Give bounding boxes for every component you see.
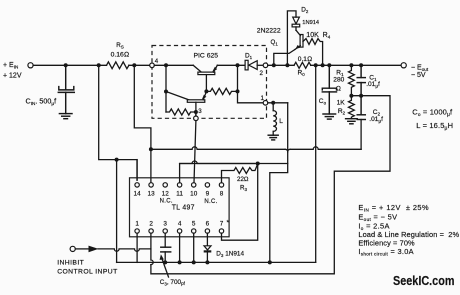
capacitor C1 <box>360 65 362 77</box>
wire -5V riser down to lower bus <box>315 65 317 262</box>
node -5V sense riser <box>314 63 318 67</box>
svg-text:L = 16.5μH: L = 16.5μH <box>416 121 453 131</box>
svg-text:SeekIC.com: SeekIC.com <box>393 273 455 288</box>
wire pin13 riser top handled; wire pin 11 riser to bus <box>180 164 256 183</box>
wire T1 emitter to J2 <box>217 64 245 66</box>
svg-text:8: 8 <box>220 190 224 197</box>
node pin5 on bus <box>192 260 196 264</box>
wire divider feedback to corner <box>151 96 390 274</box>
node inhibit pullup tap <box>115 158 119 162</box>
svg-text:1: 1 <box>135 220 139 227</box>
svg-text:22Ω: 22Ω <box>237 176 249 183</box>
node Co tap <box>327 63 331 67</box>
diode D3 1N914 (pin 6) <box>206 233 208 246</box>
wire lower bus <box>117 261 316 263</box>
svg-text:14: 14 <box>134 190 142 197</box>
svg-text:10: 10 <box>190 190 198 197</box>
output terminal <box>401 63 406 68</box>
resistor R3 22 ohm (pin 8) <box>222 164 258 183</box>
wire J5 to pin 1 <box>238 91 264 102</box>
svg-text:2: 2 <box>260 70 264 77</box>
resistor R1 280 ohm <box>349 65 355 95</box>
inhibit input terminal <box>70 246 75 251</box>
ground below L <box>268 135 278 140</box>
wire pin 4,5 columns <box>179 233 181 262</box>
resistor R0 0.1 ohm <box>294 62 311 68</box>
svg-text:Ω: Ω <box>336 86 341 93</box>
wire pin 1 column <box>136 233 138 262</box>
node divider R1-R2 <box>349 94 353 98</box>
transistor T2 (lower PNP of darlington) <box>166 91 206 116</box>
capacitor Cin <box>65 65 67 89</box>
node C3 bottom on bus <box>163 260 167 264</box>
node J4 (T1 base / T2 emitter) <box>204 89 208 93</box>
ground below Cin <box>59 114 72 119</box>
wire J1 down to J3 <box>165 65 167 112</box>
wire pin 14 riser / pin 13 riser drawn above <box>136 160 138 181</box>
wire HA line (C2 bottom, across to pin13 node) with hops <box>151 147 361 150</box>
svg-text:− 5V: − 5V <box>411 72 426 79</box>
node R1 top <box>349 63 353 67</box>
bottom pins <box>135 220 223 227</box>
node D2 anode / rail junction <box>285 63 289 67</box>
input terminal +Ein <box>28 63 33 68</box>
svg-text:1K: 1K <box>337 99 346 106</box>
ground below Co <box>323 114 336 119</box>
wire pin 2 column with hop over bus <box>151 233 153 264</box>
svg-text:4: 4 <box>155 58 159 65</box>
svg-text:EIN = + 12V ± 25%: EIN = + 12V ± 25% <box>358 203 429 213</box>
PIC625 dashed module box <box>152 46 267 119</box>
svg-text:.01μf: .01μf <box>366 81 380 88</box>
node divider C1-C2 <box>359 94 363 98</box>
capacitor C2 <box>360 96 362 115</box>
svg-text:0.16Ω: 0.16Ω <box>111 51 129 58</box>
node Rs right <box>132 63 136 67</box>
svg-text:7: 7 <box>220 220 224 227</box>
wire output rail right <box>311 64 401 66</box>
svg-text:D3 1N914: D3 1N914 <box>216 250 244 258</box>
svg-text:4: 4 <box>178 220 182 227</box>
node J6 (pin3 node) <box>194 110 198 114</box>
svg-text:2: 2 <box>149 220 153 227</box>
inhibit arrow <box>89 246 99 253</box>
notes text block <box>358 203 459 256</box>
node J1 <box>164 63 168 67</box>
wire pin4 rail into box <box>154 64 193 66</box>
svg-text:INHIBIT: INHIBIT <box>57 259 84 266</box>
wire pin 2 output rail <box>268 64 294 66</box>
svg-text:.01μf: .01μf <box>369 116 383 123</box>
wire pin 7 path <box>222 164 258 241</box>
svg-text:0.1Ω: 0.1Ω <box>298 56 312 63</box>
resistor R2 1K <box>349 96 355 119</box>
svg-text:1N914: 1N914 <box>302 20 319 26</box>
wire PIC pin1 node to L and down <box>268 102 288 104</box>
resistor R4 10K (Q1 base) <box>303 39 323 66</box>
svg-text:280: 280 <box>333 77 344 84</box>
pin 4 <box>150 63 155 68</box>
svg-text:N.C.: N.C. <box>204 199 217 205</box>
node 22ohm/pin7 junction <box>256 162 260 166</box>
svg-text:3: 3 <box>198 108 202 115</box>
svg-text:CONTROL INPUT: CONTROL INPUT <box>57 268 117 275</box>
svg-text:L: L <box>279 118 283 125</box>
node HA left / pin13 <box>149 147 153 151</box>
wire bus to corner riser <box>258 163 288 165</box>
node C1 top <box>359 63 363 67</box>
pin 2 <box>263 63 268 68</box>
top pins <box>135 183 224 187</box>
node R4 / rail junction <box>321 63 325 67</box>
node D3 cathode on bus <box>205 260 209 264</box>
svg-text:13: 13 <box>148 190 156 197</box>
diode D2 1N914 <box>287 11 299 65</box>
node J2 <box>236 63 240 67</box>
wire PIC pin3 to TL pin 10 <box>194 121 196 183</box>
wire bus continues with hop over pin10 riser <box>180 161 256 164</box>
svg-text:10K R4: 10K R4 <box>306 32 330 40</box>
TL497 IC box <box>130 178 230 237</box>
pin 1 <box>263 101 268 106</box>
capacitor C3 <box>164 233 166 247</box>
svg-text:9: 9 <box>206 190 210 197</box>
wire to PIC pin 4 <box>129 64 150 66</box>
ground below R2 <box>346 119 358 124</box>
svg-text:N.C.: N.C. <box>160 199 173 205</box>
inductor L <box>273 103 276 135</box>
node J5 <box>236 89 240 93</box>
svg-text:3: 3 <box>163 220 167 227</box>
wire inhibit pullup vertical <box>116 160 118 263</box>
node pin4 on bus <box>178 260 182 264</box>
wire +12V sense down (left of Rs) to pin 14 <box>99 65 137 180</box>
wire pin1 riser down (merges HA, bus corner, stub) <box>287 103 289 150</box>
capacitor Co <box>328 65 330 88</box>
svg-text:2N2222: 2N2222 <box>257 27 281 34</box>
svg-text:1: 1 <box>261 95 265 102</box>
svg-text:6: 6 <box>206 220 210 227</box>
diode D1 <box>245 60 263 70</box>
svg-text:5: 5 <box>192 220 196 227</box>
node J3 <box>164 90 168 94</box>
wire inhibit line with dips <box>98 249 151 251</box>
svg-text:PIC 625: PIC 625 <box>194 52 219 59</box>
wire input rail <box>33 64 106 66</box>
wire J2 to J5 <box>237 65 239 91</box>
resistor internal R (T1 base to J5) <box>206 88 237 94</box>
node stub riser on bus <box>268 260 272 264</box>
transistor T1 (upper PNP of darlington) <box>193 65 217 91</box>
svg-text:11: 11 <box>176 190 183 197</box>
svg-text:12: 12 <box>162 190 170 197</box>
node Rs left <box>97 63 101 67</box>
svg-text:TL 497: TL 497 <box>172 205 195 212</box>
resistor internal R (T2 base to J3 leg) <box>166 109 196 115</box>
node Q1 emitter / rail junction <box>272 63 276 67</box>
svg-text:+ 12V: + 12V <box>3 73 22 80</box>
wire Rs-right sense jog down to pin 13 node <box>134 65 151 182</box>
pin 3 <box>194 116 199 121</box>
resistor Rs 0.16 ohm <box>107 62 129 69</box>
node Cin tap <box>64 63 68 67</box>
wire Q1 emitter to rail <box>274 50 295 66</box>
